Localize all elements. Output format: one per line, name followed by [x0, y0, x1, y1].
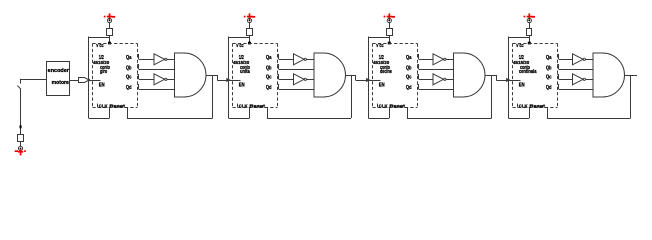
svg-text:Qb: Qb	[546, 66, 552, 72]
arrowhead into EN node 3	[366, 78, 371, 82]
svg-text:Qd: Qd	[126, 85, 132, 91]
final output stub	[631, 75, 638, 77]
svg-text:giro: giro	[100, 69, 107, 75]
pin Qa U3	[417, 54, 419, 56]
wire Qc1 to inverter	[139, 79, 154, 81]
junction vcc node 2	[248, 42, 251, 45]
svg-text:CLK: CLK	[99, 104, 108, 109]
wire Qc4 to inverter	[559, 79, 573, 81]
wire vcc circle to pin box 1	[109, 23, 111, 28]
svg-text:v cc: v cc	[236, 43, 244, 49]
svg-text:Qd: Qd	[546, 85, 552, 91]
vcc pin box 2	[247, 29, 253, 36]
svg-text:v cc: v cc	[376, 43, 384, 49]
tag connector T1 (pointed flag)	[79, 78, 90, 83]
pin Qb U3	[417, 64, 419, 66]
svg-text:Qa: Qa	[266, 55, 272, 61]
wire Qa3 to inverter	[419, 59, 433, 61]
arrowhead into EN node 4	[506, 78, 511, 82]
svg-text:unita: unita	[240, 69, 250, 75]
EN pin wire 4	[508, 80, 520, 82]
svg-text:CLK: CLK	[379, 104, 388, 109]
inverter A3 on Qa	[433, 54, 444, 65]
wire pin box to IC vcc pin 2	[249, 36, 251, 44]
pin Qb U2	[277, 64, 279, 66]
carry wire to next stage 3	[492, 75, 497, 77]
EN pin wire 2	[229, 80, 241, 82]
CLK pin tick 3	[377, 104, 379, 108]
svg-text:EN: EN	[99, 83, 105, 89]
svg-text:Reset: Reset	[109, 104, 125, 109]
CLK pin tick 1	[97, 104, 99, 108]
svg-text:Qa: Qa	[126, 55, 132, 61]
pin Qd U2	[277, 84, 279, 86]
pin Qc U3	[417, 74, 419, 76]
svg-text:CLK: CLK	[239, 104, 248, 109]
battery pin box	[18, 135, 24, 142]
IC U4: 1/2 4518/20 conto centinaia (dashed box)	[513, 44, 558, 108]
wire left rail 4	[508, 37, 510, 119]
wire Qc3 to inverter	[419, 79, 433, 81]
svg-text:Qa: Qa	[406, 55, 412, 61]
terminal circle VCC3	[387, 18, 391, 22]
junction vcc node 1	[108, 42, 111, 45]
wire switch to battery	[20, 89, 22, 134]
wire Qd4 to AND gate	[559, 89, 593, 91]
reset loop wire 4	[630, 75, 632, 118]
junction blob	[20, 125, 22, 128]
vcc pin box 4	[527, 29, 532, 36]
wire vcc circle to pin box 2	[249, 23, 251, 28]
svg-text:EN: EN	[519, 83, 525, 89]
svg-text:encoder: encoder	[48, 68, 69, 74]
IC U2: 1/2 4518/20 conto unita (dashed box)	[233, 44, 278, 108]
IC U3: 1/2 4518/20 conto decine (dashed box)	[373, 44, 418, 108]
svg-text:Qd: Qd	[266, 85, 272, 91]
CLK pin tick 4	[517, 104, 519, 108]
svg-text:Qc: Qc	[406, 75, 412, 81]
wire left rail 3	[368, 37, 370, 119]
pin Qc U1	[137, 74, 139, 76]
pin Qd U4	[557, 84, 559, 86]
EN pin wire 3	[368, 80, 380, 82]
power +V supply VCC2 (red)	[244, 16, 246, 18]
wire Qb4 to AND gate	[559, 69, 593, 71]
wire CLK bracket 1	[89, 118, 110, 120]
AND gate G2	[314, 53, 346, 97]
inverter B2 on Qc	[294, 74, 305, 85]
wire Qa1 to inverter	[139, 59, 154, 61]
wire CLK bracket 2	[229, 118, 250, 120]
carry wire to next stage 1	[213, 75, 218, 77]
AND gate G3	[454, 53, 486, 97]
wire pin box to IC vcc pin 3	[389, 36, 391, 44]
AND output stub 1	[206, 75, 213, 77]
power +V supply VCC4 (red)	[524, 16, 526, 18]
svg-text:Qd: Qd	[406, 85, 412, 91]
svg-text:motore: motore	[52, 80, 69, 86]
terminal circle VCC4	[527, 18, 531, 22]
svg-text:EN: EN	[239, 83, 245, 89]
power +V supply VCC1 (red)	[104, 16, 106, 18]
junction node EN1	[88, 79, 91, 82]
terminal circle VCC2	[247, 18, 251, 22]
IC U1: 1/2 4518/20 conto giro (dashed box)	[93, 44, 138, 108]
CLK pin tick 2	[237, 104, 239, 108]
wire Qd1 to AND gate	[139, 89, 175, 91]
wire Qd3 to AND gate	[419, 89, 454, 91]
svg-text:CLK: CLK	[519, 104, 528, 109]
vcc pin box 1	[107, 29, 113, 36]
carry wire to next stage 2	[351, 75, 356, 77]
pin Qc U2	[277, 74, 279, 76]
svg-text:Reset: Reset	[529, 104, 545, 109]
pin Qb U4	[557, 64, 559, 66]
switch S1 blade	[17, 86, 21, 90]
pin Qc U4	[557, 74, 559, 76]
wire vcc top rail 4	[508, 37, 529, 39]
battery terminal circle	[18, 146, 22, 150]
inverter B1 on Qc	[154, 74, 165, 85]
svg-text:Qa: Qa	[546, 55, 552, 61]
AND gate G4	[593, 53, 625, 97]
wire Qa4 to inverter	[559, 59, 573, 61]
pin Qa U1	[137, 54, 139, 56]
wire vcc top rail 3	[368, 37, 389, 39]
AND gate G1	[175, 53, 207, 97]
inverter B4 on Qc	[573, 74, 584, 85]
pin Qd U3	[417, 84, 419, 86]
wire vcc top rail 2	[229, 37, 250, 39]
svg-text:Qb: Qb	[266, 66, 272, 72]
wire Qb3 to AND gate	[419, 69, 454, 71]
wire Qd2 to AND gate	[279, 89, 314, 91]
svg-text:Qc: Qc	[126, 75, 132, 81]
svg-text:decine: decine	[380, 69, 392, 75]
pin Qd U1	[137, 84, 139, 86]
inverter B3 on Qc	[433, 74, 444, 85]
svg-text:centinaia: centinaia	[519, 69, 537, 75]
wire encoder output to tag	[70, 80, 79, 82]
svg-text:Qb: Qb	[126, 66, 132, 72]
wire Qb1 to AND gate	[139, 69, 175, 71]
wire vcc circle to pin box 4	[529, 23, 531, 28]
inverter A1 on Qa	[154, 54, 165, 65]
EN pin wire 1	[89, 80, 101, 82]
wire Qb2 to AND gate	[279, 69, 314, 71]
wire CLK bracket 4	[508, 118, 529, 120]
vcc pin box 3	[387, 29, 393, 36]
wire pin box to IC vcc pin 4	[529, 36, 531, 44]
AND output stub 4	[625, 75, 631, 77]
svg-text:v cc: v cc	[516, 43, 524, 49]
wire CLK bracket 3	[368, 118, 389, 120]
wire left rail 2	[228, 37, 230, 119]
wire left rail 1	[88, 37, 90, 119]
pin Qb U1	[137, 64, 139, 66]
reset loop wire 1	[212, 75, 214, 118]
svg-text:Reset: Reset	[389, 104, 405, 109]
inverter A2 on Qa	[294, 54, 305, 65]
junction vcc node 4	[528, 42, 531, 45]
terminal circle VCC1	[107, 18, 111, 22]
reset loop wire 3	[491, 75, 493, 118]
inverter A4 on Qa	[573, 54, 584, 65]
svg-text:Reset: Reset	[249, 104, 265, 109]
svg-text:Qb: Qb	[406, 66, 412, 72]
reset loop wire 2	[351, 75, 353, 118]
svg-text:Qc: Qc	[266, 75, 272, 81]
battery minus symbol (red)	[15, 150, 18, 152]
AND output stub 3	[485, 75, 492, 77]
wire encoder left	[21, 79, 47, 81]
junction vcc node 3	[388, 42, 391, 45]
AND output stub 2	[346, 75, 352, 77]
wire pin box to IC vcc pin 1	[109, 36, 111, 44]
pin Qa U2	[277, 54, 279, 56]
power +V supply VCC3 (red)	[384, 16, 386, 18]
svg-text:Qc: Qc	[546, 75, 552, 81]
arrowhead into EN node 2	[226, 78, 231, 82]
svg-text:EN: EN	[379, 83, 385, 89]
svg-text:v cc: v cc	[96, 43, 104, 49]
pin Qa U4	[557, 54, 559, 56]
wire Qc2 to inverter	[279, 79, 294, 81]
wire vcc top rail 1	[89, 37, 110, 39]
encoder motor M1	[47, 62, 70, 96]
wire vcc circle to pin box 3	[389, 23, 391, 28]
wire Qa2 to inverter	[279, 59, 294, 61]
